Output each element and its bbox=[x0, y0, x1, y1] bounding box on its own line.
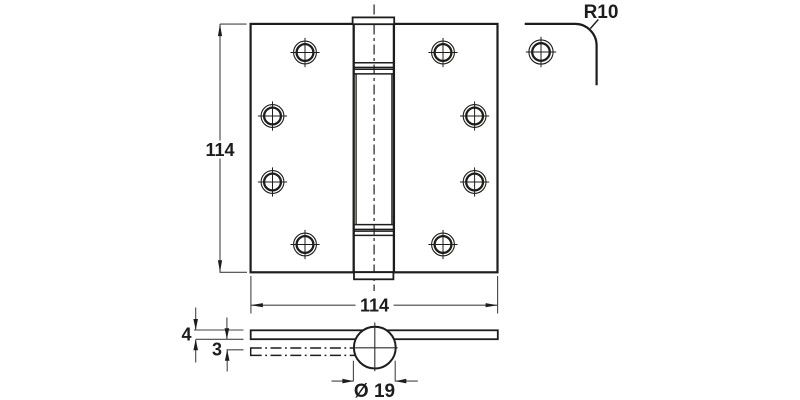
dimension 3 (second leaf thickness) bbox=[227, 318, 244, 372]
svg-text:114: 114 bbox=[205, 140, 234, 160]
screw hole in corner detail bbox=[526, 37, 556, 67]
barrel inner sleeve lines (middle section) bbox=[356, 74, 392, 225]
barrel top cap bbox=[353, 17, 395, 24]
knuckle crosshairs bbox=[374, 323, 376, 372]
screw hole H6 (right upper-middle) bbox=[460, 101, 489, 130]
upper knuckle joint rings bbox=[353, 63, 395, 74]
dimension 114 horizontal (bottom of front view) bbox=[251, 276, 498, 314]
dimension 4 (leaf thickness) bbox=[194, 308, 244, 363]
leader line for R10 bbox=[590, 20, 598, 29]
R10 corner detail outline bbox=[525, 24, 597, 85]
knuckle barrel outer edges bbox=[354, 24, 394, 272]
svg-text:3: 3 bbox=[212, 340, 222, 360]
svg-text:114: 114 bbox=[360, 296, 389, 316]
hidden second leaf (dash-dot outline) bbox=[251, 347, 357, 356]
screw hole H2 (left upper-middle) bbox=[258, 101, 287, 130]
screw hole H8 (bottom right) bbox=[428, 230, 457, 259]
hinge leaf plate (front view) bbox=[251, 24, 498, 272]
screw hole H5 (top right) bbox=[428, 38, 457, 67]
svg-text:4: 4 bbox=[181, 325, 191, 345]
screw hole H1 (top left) bbox=[290, 38, 319, 67]
dimension 114 vertical (left) bbox=[220, 24, 247, 272]
screw hole H7 (right lower-middle) bbox=[460, 167, 489, 196]
knuckle circle (side view, D19) bbox=[354, 327, 396, 369]
svg-text:Ø 19: Ø 19 bbox=[354, 381, 395, 400]
dimension D19 (knuckle diameter) bbox=[332, 361, 418, 382]
side view leaf bar (edge-on, solid) bbox=[251, 330, 498, 339]
svg-text:R10: R10 bbox=[584, 2, 619, 23]
screw hole H3 (left lower-middle) bbox=[258, 167, 287, 196]
center line (pin axis, vertical dash-dot) bbox=[373, 5, 375, 292]
lower knuckle joint rings bbox=[353, 225, 395, 236]
screw hole H4 (bottom left) bbox=[290, 230, 319, 259]
barrel bottom cap bbox=[354, 272, 393, 279]
